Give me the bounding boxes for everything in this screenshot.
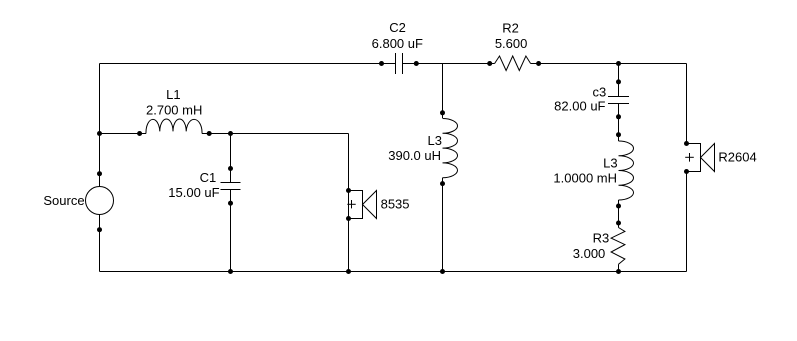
node 8535 bottom rail junction bbox=[346, 269, 351, 274]
svg-text:L3: L3 bbox=[603, 156, 617, 171]
svg-text:C2: C2 bbox=[389, 20, 406, 35]
wire bottom rail bbox=[100, 271, 687, 273]
wire left vertical lower bbox=[99, 215, 101, 272]
wire L1 left lead bbox=[100, 133, 147, 135]
wire top rail middle segment bbox=[403, 63, 495, 65]
svg-text:8535: 8535 bbox=[381, 197, 410, 212]
resistor R2 bbox=[487, 56, 541, 71]
svg-text:5.600: 5.600 bbox=[495, 36, 528, 51]
svg-text:L1: L1 bbox=[166, 87, 180, 102]
capacitor c3 bbox=[608, 79, 629, 119]
svg-text:R2: R2 bbox=[502, 21, 519, 36]
wire left vertical upper bbox=[99, 64, 101, 187]
wire L3a upper lead from C2 node bbox=[442, 64, 444, 119]
wire C1 lower lead bbox=[230, 190, 232, 272]
svg-text:L3: L3 bbox=[428, 133, 442, 148]
capacitor C1 bbox=[221, 166, 241, 206]
node R3 top terminal bbox=[616, 221, 621, 226]
capacitor C2 bbox=[379, 53, 419, 74]
svg-text:1.0000 mH: 1.0000 mH bbox=[553, 170, 617, 185]
wire between L3b and R3 bbox=[618, 200, 620, 228]
node c3 branch top junction bbox=[616, 61, 621, 66]
resistor R3 bbox=[611, 228, 625, 265]
wire L3a lower lead bbox=[442, 178, 444, 272]
wire between c3 and L3b bbox=[618, 104, 620, 142]
svg-text:6.800 uF: 6.800 uF bbox=[372, 36, 423, 51]
wire top rail right segment bbox=[531, 63, 687, 65]
wire c3 upper lead bbox=[618, 64, 620, 97]
speaker U1 8535 bbox=[346, 188, 377, 221]
svg-text:82.00 uF: 82.00 uF bbox=[554, 99, 605, 114]
svg-text:390.0 uH: 390.0 uH bbox=[388, 148, 441, 163]
inductor L3 1mH bbox=[616, 132, 634, 208]
inductor L1 bbox=[137, 119, 212, 136]
wire L1 right lead to speaker branch bbox=[202, 133, 349, 135]
wire speaker 8535 branch vertical bbox=[348, 134, 350, 272]
source V1 bbox=[86, 171, 114, 232]
svg-text:R3: R3 bbox=[593, 231, 610, 246]
svg-text:Source: Source bbox=[43, 193, 84, 208]
node C1 bottom rail junction bbox=[228, 269, 233, 274]
svg-text:3.000: 3.000 bbox=[573, 246, 606, 261]
node R3 bottom rail junction bbox=[616, 269, 621, 274]
node junction L1 tap bbox=[97, 131, 102, 136]
wire R3 lower lead bbox=[618, 264, 620, 271]
wire right edge upper bbox=[686, 64, 688, 144]
node L3a bottom rail junction bbox=[440, 269, 445, 274]
svg-text:R2604: R2604 bbox=[718, 150, 756, 165]
node junction C1 tap bbox=[228, 131, 233, 136]
wire C1 upper lead bbox=[230, 134, 232, 183]
inductor L3 390uH bbox=[440, 110, 458, 186]
wire right edge lower bbox=[686, 172, 688, 272]
svg-text:C1: C1 bbox=[200, 170, 217, 185]
speaker U2 R2604 bbox=[684, 141, 715, 174]
svg-text:2.700 mH: 2.700 mH bbox=[146, 103, 202, 118]
svg-text:c3: c3 bbox=[592, 85, 606, 100]
svg-text:15.00 uF: 15.00 uF bbox=[168, 185, 219, 200]
wire top rail left segment bbox=[100, 63, 396, 65]
